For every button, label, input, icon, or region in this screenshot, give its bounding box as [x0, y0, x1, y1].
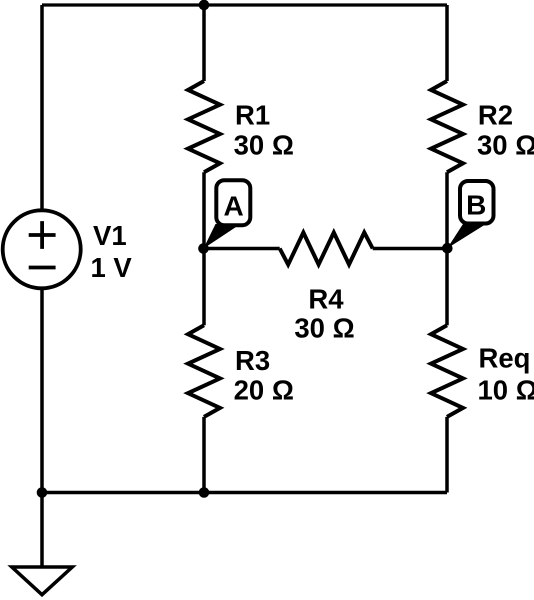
wire mid branch top (top rail to R1) — [202, 5, 206, 81]
wire left rail lower (V1 to bottom rail) — [40, 289, 44, 493]
wire mid branch node A to R3 — [202, 249, 206, 326]
wire ground stub — [40, 493, 44, 567]
resistor Req — [431, 325, 463, 417]
svg-text:1 V: 1 V — [91, 252, 133, 283]
svg-text:20 Ω: 20 Ω — [234, 375, 294, 406]
wire bottom rail — [42, 491, 447, 495]
junction dot node A — [198, 243, 209, 254]
resistor R4 — [280, 233, 373, 265]
svg-text:Req: Req — [479, 343, 531, 374]
node B callout — [447, 181, 493, 248]
junction dot node B — [442, 243, 453, 254]
ground — [12, 567, 73, 595]
svg-text:30 Ω: 30 Ω — [234, 130, 294, 161]
svg-text:30 Ω: 30 Ω — [294, 312, 354, 343]
svg-text:R3: R3 — [235, 345, 270, 376]
svg-text:R4: R4 — [308, 283, 344, 314]
svg-text:B: B — [466, 190, 486, 221]
junction dot bottom mid — [199, 487, 210, 498]
wire right rail top (top rail to R2) — [445, 5, 449, 81]
junction dot top center — [199, 0, 210, 10]
resistor R2 — [431, 81, 463, 172]
node A callout — [204, 180, 251, 248]
wire left rail upper (top rail to V1) — [40, 5, 44, 210]
voltage source V1 — [3, 210, 81, 288]
wire right rail node B to Req — [445, 249, 449, 326]
resistor R1 — [188, 81, 220, 172]
wire node A to R4 — [204, 247, 280, 251]
svg-text:30 Ω: 30 Ω — [477, 130, 534, 161]
svg-text:10 Ω: 10 Ω — [478, 375, 534, 406]
svg-text:V1: V1 — [93, 220, 127, 251]
wire right rail R2 to node B — [445, 172, 449, 248]
svg-text:R1: R1 — [235, 100, 270, 131]
wire R4 to node B — [373, 247, 447, 251]
junction dot bottom left — [37, 487, 48, 498]
wire mid branch R1 to node A — [202, 172, 206, 248]
wire top rail — [42, 3, 447, 6]
svg-text:A: A — [223, 191, 243, 222]
resistor R3 — [188, 325, 220, 417]
svg-text:R2: R2 — [478, 100, 513, 131]
wire mid branch R3 to bottom rail — [202, 417, 206, 493]
wire right rail Req to bottom rail — [445, 417, 449, 493]
